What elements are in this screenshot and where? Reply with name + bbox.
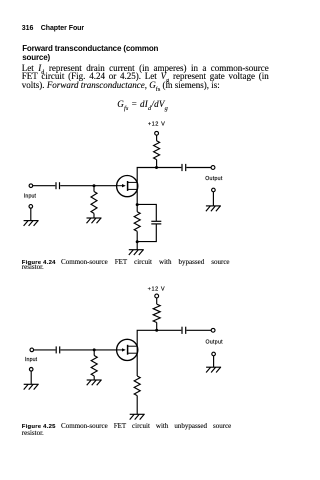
wire gate rail (94, 349, 116, 351)
ground input (fig 4.24) (24, 221, 39, 226)
wire source node to RS (136, 205, 138, 212)
wire RD to drain node (156, 323, 158, 331)
node drain junction (fig 4.24) (155, 166, 158, 169)
ground source (fig 4.24) (129, 250, 144, 255)
ground output (fig 4.25) (206, 367, 221, 372)
capacitor C4 input coupling (fig 4.25) (56, 346, 60, 353)
wire C4 to gate node (60, 349, 94, 351)
ground source (fig 4.25) (130, 414, 145, 419)
wire gate node to RG (93, 186, 95, 192)
body paragraph line 3 (22, 81, 269, 94)
terminal output (fig 4.25) (211, 328, 215, 332)
wire supply to RD (156, 135, 158, 141)
wire RS to bottom node (136, 231, 138, 241)
terminal input bottom (fig 4.24) (29, 205, 33, 209)
terminal input top (fig 4.25) (30, 348, 34, 352)
figure 4.25 caption line 1 (22, 423, 231, 430)
svg-text:+12 V: +12 V (148, 287, 166, 293)
wire C5 to output terminal (186, 329, 211, 331)
page header (22, 25, 84, 32)
capacitor C3 output coupling (fig 4.24) (182, 164, 186, 171)
wire C1 to gate node (60, 185, 94, 187)
wire source vertical (136, 350, 138, 376)
wire RS to ground (136, 396, 138, 415)
equation (117, 100, 168, 113)
wire input to C4 (34, 349, 56, 351)
svg-text:Input: Input (24, 193, 37, 199)
wire source vertical (136, 186, 138, 205)
wire RD to drain node (156, 160, 158, 168)
terminal input top (fig 4.24) (29, 184, 33, 188)
capacitor C1 input coupling (fig 4.24) (56, 182, 60, 189)
body paragraph line 2 (22, 72, 269, 85)
wire input to C1 (33, 185, 56, 187)
resistor RD drain (fig 4.25) (153, 304, 160, 322)
node gate junction (fig 4.25) (93, 348, 96, 351)
wire drain rail right (157, 167, 182, 169)
figure 4.25 caption line 2 (22, 430, 44, 437)
body paragraph line 1 (22, 64, 269, 77)
wire supply to RD (156, 298, 158, 304)
wire output terminal to ground (212, 192, 214, 206)
ground gate resistor (fig 4.25) (87, 380, 102, 385)
transistor Q1 JFET (fig 4.24) (117, 176, 138, 197)
svg-text:Output: Output (205, 176, 223, 182)
terminal +12 V supply (fig 4.24) (155, 131, 159, 135)
ground gate resistor (fig 4.24) (87, 218, 102, 223)
node source bottom junction (fig 4.24) (136, 240, 139, 243)
transistor Q2 JFET (fig 4.25) (117, 339, 138, 360)
terminal output (fig 4.24) (211, 166, 215, 170)
ground input (fig 4.25) (24, 384, 39, 389)
wire output terminal to ground (213, 356, 215, 367)
wire gate node to RG (93, 350, 95, 356)
resistor RD drain (fig 4.24) (154, 141, 160, 160)
wire bottom node to ground (136, 242, 138, 250)
wire input bottom to ground (30, 371, 32, 384)
wire bypass branch top (137, 204, 156, 221)
resistor RG gate (fig 4.25) (91, 356, 97, 377)
capacitor C2 source bypass (fig 4.24) (151, 221, 161, 224)
node source junction (fig 4.24) (136, 203, 139, 206)
wire bypass branch bottom (137, 224, 156, 241)
node gate junction (fig 4.24) (93, 184, 96, 187)
ground output (fig 4.24) (206, 206, 221, 211)
terminal output ground (fig 4.25) (212, 352, 216, 356)
wire drain rail right (157, 329, 182, 331)
resistor RS source (fig 4.24) (134, 212, 140, 232)
svg-text:Output: Output (206, 340, 224, 346)
wire gate rail (94, 185, 117, 187)
wire RG to ground (93, 213, 95, 218)
section heading (22, 44, 158, 63)
wire drain rail left to transistor (137, 330, 157, 350)
svg-text:+12 V: +12 V (148, 121, 166, 127)
svg-text:Input: Input (25, 357, 38, 363)
terminal +12 V supply (fig 4.25) (155, 294, 159, 298)
figure 4.24 caption line 2 (22, 264, 44, 271)
node drain junction (fig 4.25) (155, 329, 158, 332)
resistor RS source (fig 4.25) (134, 376, 140, 396)
wire C3 to output terminal (186, 167, 211, 169)
resistor RG gate (fig 4.24) (91, 192, 97, 214)
wire RG to ground (93, 376, 95, 380)
figure 4.24 caption line 1 (22, 259, 230, 266)
terminal input bottom (fig 4.25) (29, 368, 33, 372)
capacitor C5 output coupling (fig 4.25) (182, 327, 186, 334)
wire drain rail left to transistor (137, 168, 156, 187)
wire input bottom to ground (30, 208, 32, 220)
terminal output ground (fig 4.24) (212, 188, 216, 192)
